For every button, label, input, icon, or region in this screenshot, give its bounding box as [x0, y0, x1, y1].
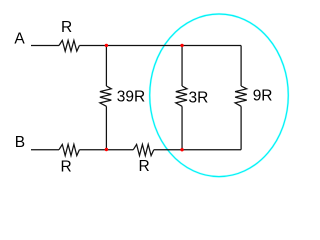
junction dot bottom rail at 3R: [180, 148, 183, 151]
wire 3R column top lead: [181, 46, 183, 87]
wire between bottom resistors: [79, 149, 133, 151]
junction dot top rail at 3R: [180, 44, 183, 47]
svg-text:R: R: [138, 158, 149, 175]
wire bottom rail from second R to 9R column: [154, 149, 241, 151]
resistor R (bottom left): [59, 144, 79, 155]
resistor 39R: [100, 86, 111, 106]
resistor 9R: [235, 86, 247, 106]
wire 9R column bottom lead: [240, 106, 242, 149]
highlight ellipse around 3R and 9R: [150, 14, 289, 177]
resistor 3R: [176, 86, 187, 106]
svg-text:39R: 39R: [117, 89, 145, 106]
svg-text:B: B: [15, 134, 25, 151]
resistor R (bottom middle): [133, 144, 154, 155]
wire 3R column bottom lead: [181, 106, 183, 149]
svg-text:9R: 9R: [253, 88, 273, 105]
svg-text:3R: 3R: [189, 90, 209, 107]
resistor R (top, between A and top rail): [59, 40, 79, 51]
wire A to resistor R (top): [31, 45, 59, 47]
wire 39R column top lead: [105, 46, 107, 87]
junction dot top rail at 39R: [105, 44, 108, 47]
wire B to first bottom resistor R: [31, 149, 59, 151]
wire 9R column top lead: [240, 46, 242, 87]
wire 39R column bottom lead: [105, 106, 107, 149]
junction dot bottom rail at 39R: [105, 148, 108, 151]
svg-text:R: R: [60, 159, 71, 176]
wire top rail from R to 9R column: [79, 45, 241, 47]
svg-text:A: A: [14, 30, 25, 47]
svg-text:R: R: [61, 19, 72, 36]
